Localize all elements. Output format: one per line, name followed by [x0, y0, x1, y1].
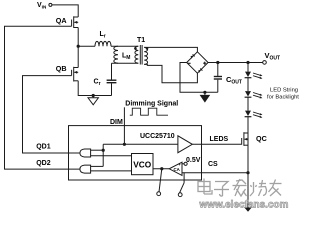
wire DIM input [123, 107, 125, 144]
diode bridge rectifier [187, 52, 208, 73]
transformer T1 [134, 45, 148, 65]
node switch junction [160, 167, 163, 170]
inductor LM [114, 46, 118, 63]
node LED string tap [246, 61, 249, 64]
node VIN terminal [49, 3, 52, 6]
svg-text:www.elecfans.com: www.elecfans.com [199, 200, 289, 211]
svg-text:QC: QC [256, 134, 267, 143]
wire half-bridge rail QA source to QB drain [77, 28, 79, 68]
wire bridge negative to ground rail [180, 63, 218, 93]
wire VIN to QA drain [52, 5, 78, 17]
node 0.5V terminal [184, 162, 187, 165]
watermark logo [198, 179, 282, 197]
wire node A to Lr [78, 45, 95, 47]
gate G1 (QD1 driver) [80, 149, 91, 157]
LED D1 [245, 72, 263, 79]
wire T1 secondary top to bridge [144, 47, 197, 51]
node CS junction [246, 171, 249, 174]
svg-text:LED String: LED String [270, 88, 298, 94]
wire T1 primary bottom [112, 62, 139, 64]
wire gate1 input DIM [91, 149, 104, 151]
wire LEDS output to QC gate [192, 143, 241, 145]
svg-text:DIM: DIM [110, 119, 123, 126]
svg-text:for Backlight: for Backlight [267, 95, 299, 101]
node VOUT terminal [263, 61, 267, 65]
node DIM junction [123, 143, 126, 146]
node primary ground junction [92, 94, 95, 97]
wire VCO to CA [153, 168, 169, 170]
gate G2 (QD2 driver) [80, 165, 91, 173]
IC box UCC25710 [69, 126, 202, 180]
block VCO [132, 154, 154, 175]
wire 0.5V reference stub [182, 163, 184, 165]
svg-text:QB: QB [56, 64, 67, 73]
svg-text:VIN: VIN [37, 2, 47, 9]
LED D3 [245, 111, 263, 118]
svg-text:LM: LM [122, 53, 130, 61]
wire Lr to T1 primary top [111, 45, 138, 47]
wire T1 secondary bottom to bridge [144, 64, 197, 82]
transistor QB [72, 67, 79, 82]
wire DIM internal to buffer [103, 143, 178, 145]
wire LED1 to LED2 [247, 78, 249, 91]
LED D2 [245, 91, 263, 98]
ground QC source (filled arrowhead) [244, 207, 252, 212]
svg-text:VCO: VCO [133, 159, 152, 169]
wire gate2 input DIM [91, 165, 104, 167]
transistor QA [72, 16, 79, 28]
wire gate1 input VCO [91, 155, 132, 157]
svg-text:QD1: QD1 [36, 144, 51, 151]
ground primary (open triangle) [88, 96, 98, 105]
node gate1 feed junction [102, 149, 105, 152]
svg-text:Dimming Signal: Dimming Signal [125, 100, 178, 107]
ground secondary (filled triangle) [200, 92, 211, 102]
wire QB source to ground rail [78, 81, 111, 96]
svg-text:+: + [178, 162, 181, 167]
svg-text:COUT: COUT [226, 75, 242, 86]
wire QC source rail down [247, 133, 249, 208]
svg-text:QA: QA [56, 16, 67, 25]
wire LED string top [247, 63, 249, 72]
op-amp CA comparator [169, 162, 182, 175]
inductor Lr [95, 41, 111, 46]
op-amp buffer LEDS driver [178, 136, 192, 153]
node A switch-node junction [77, 45, 80, 48]
wire LED3 to QC drain [247, 117, 249, 133]
svg-text:UCC25710: UCC25710 [140, 133, 175, 140]
node COUT tap [216, 61, 219, 64]
svg-text:QD2: QD2 [36, 160, 51, 167]
svg-text:CS: CS [208, 161, 218, 168]
waveform dimming square wave [130, 108, 168, 115]
wire gate2 input VCO [91, 170, 132, 172]
wire CS line [182, 172, 248, 174]
svg-text:VOUT: VOUT [265, 51, 281, 62]
node secondary ground junction [203, 91, 206, 94]
svg-text:0.5V: 0.5V [186, 157, 201, 164]
wire QA gate to QD2 (left loop) [5, 26, 80, 169]
switch burst-mode [157, 169, 184, 197]
wire LED2 to LED3 [247, 97, 249, 110]
svg-text:LEDS: LEDS [210, 136, 229, 143]
wire bridge positive to VOUT [208, 62, 263, 64]
svg-text:Cr: Cr [94, 79, 101, 87]
wire QB gate to QD1 [23, 76, 80, 153]
svg-text:Lr: Lr [100, 31, 106, 39]
transistor QC [242, 132, 248, 146]
wire gate feed vertical [102, 144, 104, 166]
capacitor Cr [107, 63, 117, 95]
svg-text:CA: CA [174, 167, 181, 172]
capacitor COUT [214, 63, 222, 93]
svg-text:T1: T1 [137, 37, 145, 44]
